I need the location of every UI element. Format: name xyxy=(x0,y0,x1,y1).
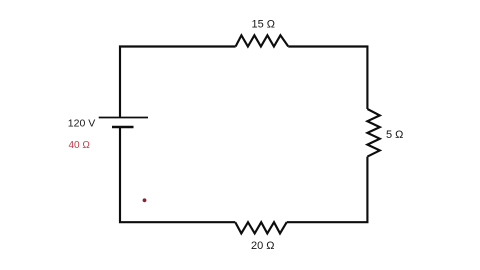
battery B1 short plate (-) xyxy=(112,126,134,129)
wire right-bottom segment xyxy=(287,157,368,223)
wire bottom-left segment xyxy=(120,127,235,222)
svg-text:20 Ω: 20 Ω xyxy=(251,240,275,252)
resistor R2 5 ohm (right) xyxy=(367,109,379,157)
wire top-left segment xyxy=(120,47,236,118)
resistor R1 15 ohm (top) xyxy=(236,35,289,46)
wire top-right segment xyxy=(288,47,367,110)
node marker red dot xyxy=(143,198,147,202)
resistor R3 20 ohm (bottom) xyxy=(235,222,286,233)
svg-text:120 V: 120 V xyxy=(68,117,95,129)
svg-text:5 Ω: 5 Ω xyxy=(386,129,403,141)
svg-text:40 Ω: 40 Ω xyxy=(69,140,91,151)
svg-text:15 Ω: 15 Ω xyxy=(252,19,276,31)
battery B1 long plate (+) xyxy=(99,117,148,119)
